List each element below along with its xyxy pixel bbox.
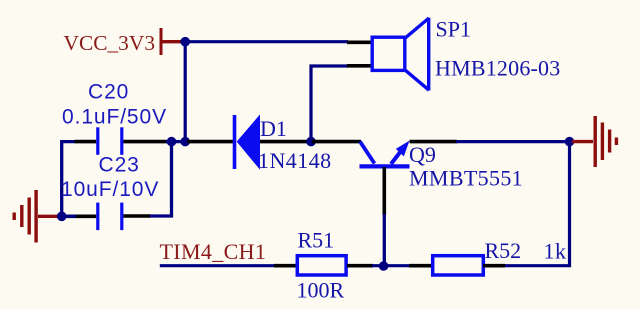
wire base to R51 junction <box>383 214 386 266</box>
svg-text:SP1: SP1 <box>436 16 471 41</box>
pin C20 right lead <box>123 140 167 144</box>
svg-text:1N4148: 1N4148 <box>258 148 332 173</box>
node mid junction <box>180 137 190 147</box>
wire VCC vertical drop <box>184 42 187 142</box>
pin D1 anode lead <box>187 140 234 144</box>
capacitor C20 plates <box>98 127 122 155</box>
svg-text:10uF/10V: 10uF/10V <box>61 178 159 201</box>
node base junction <box>379 261 389 271</box>
pin Q9 collector lead <box>312 140 361 144</box>
wire cap-left rail <box>62 142 75 217</box>
svg-text:Q9: Q9 <box>409 142 436 167</box>
pin C23 right lead <box>123 214 150 218</box>
svg-text:HMB1206-03: HMB1206-03 <box>435 56 560 81</box>
wire emitter to ground corner <box>456 140 570 143</box>
pin R51 left lead <box>274 264 298 268</box>
svg-text:D1: D1 <box>260 116 287 141</box>
node ground-right junction <box>565 137 575 147</box>
wire cap-right rail <box>148 142 172 216</box>
capacitor C23 plates <box>98 203 122 231</box>
svg-text:TIM4_CH1: TIM4_CH1 <box>160 239 267 264</box>
wire speaker bottom feed <box>311 66 348 142</box>
svg-text:100R: 100R <box>297 278 345 303</box>
svg-text:MMBT5551: MMBT5551 <box>409 166 523 191</box>
transistor Q9 <box>360 141 410 167</box>
svg-text:R51: R51 <box>298 228 335 253</box>
pin Q9 base lead <box>382 167 386 215</box>
wire ground stub to C23 <box>62 215 76 218</box>
svg-text:1k: 1k <box>544 238 567 263</box>
ground left <box>14 190 58 243</box>
pin speaker 2 <box>347 64 372 68</box>
svg-text:VCC_3V3: VCC_3V3 <box>64 31 156 55</box>
wire TIM4_CH1 to R51 <box>160 264 275 267</box>
svg-text:C20: C20 <box>88 81 129 104</box>
pin R52 right lead <box>483 264 505 268</box>
svg-text:C23: C23 <box>99 154 140 177</box>
pin C20 left lead <box>75 140 97 144</box>
resistor R51 <box>297 256 346 275</box>
svg-text:0.1uF/50V: 0.1uF/50V <box>62 105 167 128</box>
speaker SP1 <box>372 18 429 91</box>
power port VCC_3V3 bar <box>161 28 182 55</box>
ground right <box>572 116 616 167</box>
wire top rail VCC to speaker <box>182 40 348 43</box>
pin R51 right lead <box>347 264 373 268</box>
pin speaker 1 <box>347 40 372 44</box>
node diode-speaker junction <box>306 137 316 147</box>
node ground-left junction <box>57 212 67 222</box>
pin C23 left lead <box>62 215 96 219</box>
pin R52 left lead <box>409 264 433 268</box>
wire R51 to base junction <box>372 264 410 267</box>
pin Q9 emitter lead <box>410 140 458 144</box>
wire right vertical <box>504 142 570 266</box>
diode D1 <box>235 114 261 169</box>
svg-text:R52: R52 <box>485 238 522 263</box>
pin D1 cathode lead <box>260 140 312 144</box>
wire between cap rail and mid junction <box>171 140 186 143</box>
resistor R52 <box>433 256 484 275</box>
node VCC junction <box>180 37 190 47</box>
node cap rail top <box>167 137 177 147</box>
